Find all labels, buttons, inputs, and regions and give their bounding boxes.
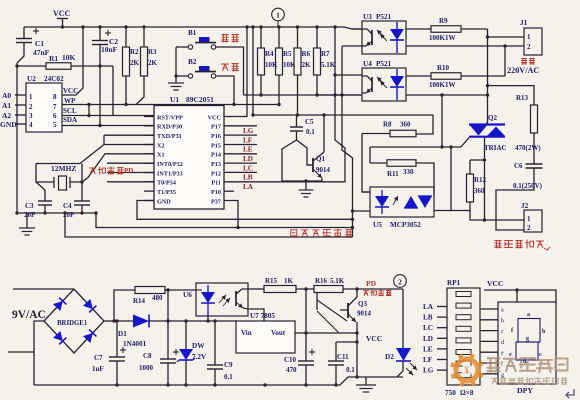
- svg-text:P14: P14: [211, 152, 221, 159]
- wire gate column: [451, 147, 485, 220]
- svg-text:0.1: 0.1: [346, 366, 355, 374]
- wire U3 input top: [352, 28, 362, 30]
- svg-text:C9: C9: [224, 361, 233, 369]
- wire LE into RP1: [437, 348, 447, 350]
- wire LD into RP1: [437, 337, 447, 339]
- svg-text:a: a: [527, 311, 530, 318]
- svg-text:DPY: DPY: [517, 386, 533, 395]
- U1 pin T0/P34 stub: [144, 181, 154, 183]
- resistor R6: [297, 27, 299, 48]
- wire bridge minus to ground rail: [34, 321, 44, 385]
- wire LF into RP1: [437, 359, 447, 361]
- svg-text:C8: C8: [143, 352, 152, 360]
- wire B1 right to R4 node: [216, 47, 244, 95]
- resistor R11: [370, 162, 387, 164]
- svg-text:1K: 1K: [284, 277, 294, 285]
- wire U6 emitter down: [248, 309, 264, 321]
- svg-text:5: 5: [53, 121, 57, 129]
- U1 pin TXD/P31 stub: [144, 134, 154, 136]
- wire U1 P15 net LE: [224, 144, 257, 146]
- capacitor C9: [214, 321, 216, 365]
- svg-text:VCC: VCC: [487, 279, 503, 288]
- label 220V input: [522, 59, 527, 64]
- svg-text:2K: 2K: [148, 59, 158, 67]
- svg-text:P521: P521: [376, 60, 392, 68]
- svg-text:R12: R12: [474, 176, 487, 184]
- U1 pin INT0/P32 stub: [144, 162, 154, 164]
- svg-text:LC: LC: [243, 164, 253, 172]
- wire diag b: [317, 311, 339, 333]
- svg-text:1: 1: [527, 215, 531, 223]
- bridge diode top-left: [53, 301, 63, 311]
- svg-text:1000: 1000: [139, 364, 154, 372]
- svg-text:C7: C7: [94, 354, 103, 362]
- wire U5 left bottom pin: [353, 210, 371, 212]
- svg-text:R11: R11: [387, 170, 399, 178]
- svg-text:5.1K: 5.1K: [330, 277, 345, 285]
- wire crystal left node: [36, 164, 54, 183]
- label PD power-down mid: [89, 168, 95, 174]
- regulator U7 7805: [236, 321, 295, 353]
- DPY pin g: [480, 373, 498, 375]
- wire R4 bottom / key scan: [260, 75, 262, 95]
- wire X1 to U1: [82, 154, 154, 182]
- wire R6 bottom to zero-cross line: [297, 75, 299, 115]
- wire gate feed line: [369, 147, 371, 163]
- U4 phototransistor: [371, 77, 373, 92]
- svg-text:R6: R6: [302, 50, 311, 58]
- svg-text:LG: LG: [243, 127, 254, 135]
- capacitor C8: [167, 321, 169, 359]
- svg-text:b: b: [542, 328, 546, 335]
- wire MT2 to R13: [488, 86, 535, 105]
- wire T0 line: [107, 181, 154, 183]
- bridge rectifier BRIDGE1: [44, 289, 104, 353]
- svg-text:0.1: 0.1: [306, 128, 315, 136]
- U5 light arrow: [393, 196, 398, 205]
- svg-text:10K: 10K: [62, 53, 76, 62]
- DPY pin e: [480, 351, 498, 353]
- svg-text:R14: R14: [133, 297, 146, 305]
- IC U2 24C02 body: [26, 83, 62, 132]
- ground symbol buttons: [175, 47, 177, 83]
- svg-text:3: 3: [29, 112, 33, 120]
- U4 LED: [396, 69, 398, 76]
- DPY pin a: [480, 308, 498, 310]
- svg-text:R8: R8: [383, 121, 392, 129]
- node 1 marker: [272, 8, 285, 21]
- svg-text:Ω×8: Ω×8: [460, 389, 474, 397]
- wire C5 fork right to Q1 base: [297, 140, 312, 165]
- svg-text:J1: J1: [520, 19, 528, 27]
- wire loop T-GND to U1: [137, 201, 353, 220]
- svg-text:MCP3052: MCP3052: [390, 221, 421, 229]
- svg-text:470(2W): 470(2W): [515, 144, 541, 152]
- bridge diode bottom-right: [83, 333, 93, 343]
- wire LG into RP1: [437, 369, 447, 371]
- wire diag a: [317, 300, 347, 321]
- svg-text:VCC: VCC: [366, 334, 382, 343]
- wire B1 left to ground column: [176, 46, 188, 48]
- svg-text:C6: C6: [514, 162, 523, 170]
- wire U1 P13 net LC: [224, 162, 257, 164]
- wire LB into RP1: [437, 316, 447, 318]
- svg-text:4: 4: [29, 121, 33, 129]
- U1 pin GND stub: [144, 200, 154, 202]
- svg-text:PD: PD: [124, 167, 133, 175]
- wire R7 bottom: [316, 75, 318, 95]
- wire WP key net over U1: [62, 104, 234, 106]
- resistor R10: [406, 75, 431, 77]
- label jia su: [222, 35, 228, 42]
- wire PD net: [343, 288, 403, 290]
- wire R5 bottom: [278, 75, 280, 105]
- U6 phototransistor: [235, 291, 237, 306]
- wire crystal top loop: [36, 163, 80, 165]
- wire B2 right to R5 node: [216, 76, 234, 105]
- resistor R7: [316, 27, 318, 48]
- svg-text:7: 7: [53, 103, 57, 111]
- svg-text:P13: P13: [211, 161, 221, 168]
- wire U3 input bottom column: [342, 46, 353, 237]
- wire Q2 MT1 to J2: [485, 137, 525, 220]
- DPY pin f: [480, 362, 498, 364]
- node 2 marker: [394, 275, 407, 288]
- wire U4 output drop column: [441, 95, 443, 147]
- svg-text:480: 480: [152, 294, 163, 302]
- svg-text:C1: C1: [35, 39, 44, 48]
- svg-text:LA: LA: [423, 303, 434, 311]
- svg-text:RXD/P30: RXD/P30: [157, 124, 182, 131]
- connector J2: [524, 210, 542, 232]
- U2 pin 4 stub GND: [15, 123, 26, 125]
- U3 light arrows: [377, 30, 384, 37]
- bridge diode top-right: [83, 299, 93, 309]
- resistor R4: [260, 27, 262, 48]
- diode D1 1N4001: [114, 320, 133, 322]
- wire U1 VCC pin to rail: [224, 27, 247, 117]
- optocoupler U6 body: [196, 283, 248, 316]
- wire U1 P14 net LD: [224, 153, 257, 155]
- svg-text:C10: C10: [284, 356, 297, 364]
- wire C1 to ground column: [16, 63, 18, 213]
- svg-text:2K: 2K: [130, 59, 140, 67]
- U6 LED: [196, 289, 202, 291]
- svg-text:c: c: [539, 351, 542, 358]
- capacitor C1: [23, 27, 25, 39]
- wire U4 input top: [334, 27, 336, 95]
- U2 pin 2 stub A1: [15, 104, 26, 106]
- svg-text:0.1(250V): 0.1(250V): [513, 182, 543, 190]
- wire zero-cross net y115: [253, 114, 433, 116]
- resistor R1: [17, 65, 46, 67]
- transistor Q3 9014: [347, 303, 349, 318]
- svg-text:P16: P16: [211, 133, 221, 140]
- wire R10 column: [504, 46, 506, 76]
- svg-text:24C02: 24C02: [44, 75, 64, 83]
- resistor R8: [362, 133, 390, 135]
- svg-text:A1: A1: [2, 101, 11, 110]
- svg-text:LD: LD: [243, 155, 253, 163]
- resistor R2: [125, 27, 127, 47]
- resistor R15: [264, 286, 296, 293]
- capacitor C2: [99, 27, 101, 41]
- optocoupler U4 P521 body: [362, 68, 406, 101]
- wire U3 output J1 pin2 net: [406, 45, 524, 47]
- resistor R13: [531, 105, 538, 133]
- resistor network RP1: [447, 288, 480, 385]
- svg-text:9014: 9014: [316, 166, 331, 174]
- wire SDA RXD net: [62, 125, 154, 127]
- wire INT1 line: [107, 172, 154, 174]
- U1 pin T1/P35 stub: [144, 190, 154, 192]
- wire R1 to RST line: [112, 66, 114, 116]
- wire crystal ground bus: [17, 212, 96, 214]
- wire LA into RP1: [437, 306, 447, 308]
- wire U4 input bottom: [317, 94, 362, 96]
- svg-text:BRIDGE1: BRIDGE1: [57, 320, 88, 327]
- arrow mark: [544, 247, 550, 250]
- capacitor C3: [36, 182, 45, 201]
- watermark subtitle text: [491, 378, 567, 385]
- svg-text:C11: C11: [337, 353, 349, 361]
- label power-fail signal: [363, 291, 368, 296]
- wire SCL RST net: [62, 115, 154, 117]
- svg-text:1: 1: [527, 33, 531, 41]
- wire U4 output to MT2 column: [406, 94, 488, 96]
- svg-text:T1/P35: T1/P35: [157, 189, 176, 196]
- svg-text:INT1/P33: INT1/P33: [157, 170, 183, 177]
- bridge diode bottom-left: [53, 331, 63, 341]
- svg-text:C4: C4: [63, 202, 72, 210]
- svg-text:7.2V: 7.2V: [192, 353, 207, 361]
- U3 phototransistor: [371, 30, 373, 45]
- capacitor C6: [526, 163, 543, 165]
- svg-text:8: 8: [53, 93, 57, 101]
- wire VCC top rail: [24, 27, 362, 29]
- svg-text:LG: LG: [423, 367, 434, 375]
- svg-text:c: c: [501, 329, 504, 335]
- IC U1 89C2051 body: [154, 106, 224, 210]
- svg-text:LE: LE: [243, 146, 253, 154]
- wire VCC column: [356, 333, 358, 377]
- svg-text:R9: R9: [439, 17, 448, 25]
- svg-text:GND: GND: [157, 198, 171, 205]
- svg-text:LF: LF: [423, 356, 433, 364]
- wire AC bottom input: [8, 351, 34, 353]
- svg-text:LE: LE: [423, 345, 433, 353]
- svg-text:A2: A2: [2, 111, 11, 120]
- svg-text:RP1: RP1: [447, 279, 461, 287]
- svg-text:5.1K: 5.1K: [321, 61, 336, 69]
- svg-text:100K1W: 100K1W: [429, 81, 455, 89]
- svg-text:20P: 20P: [24, 211, 36, 219]
- svg-text:LD: LD: [423, 335, 433, 343]
- wire rail to y115 column: [252, 27, 254, 115]
- svg-text:P11: P11: [211, 180, 221, 187]
- wire crystal right node: [70, 164, 82, 183]
- svg-text:12MHZ: 12MHZ: [51, 164, 76, 173]
- wire Q1 collector to y115: [323, 115, 325, 152]
- wire U1 P10 stub: [224, 190, 234, 192]
- svg-text:e: e: [509, 351, 512, 358]
- wire Vout bus: [295, 332, 357, 334]
- wire bridge plus node: [104, 320, 114, 322]
- wire R15 to R16: [296, 288, 314, 290]
- wire y115 drop to R8 right: [416, 115, 433, 134]
- corner arrow mark: [566, 389, 574, 395]
- svg-text:U3: U3: [363, 13, 372, 21]
- wire loop mid: [96, 213, 353, 228]
- svg-text:C5: C5: [305, 118, 314, 126]
- svg-text:P37: P37: [211, 198, 221, 205]
- wire ground rail: [34, 377, 403, 385]
- wire LC into RP1: [437, 327, 447, 329]
- wire U1 P17 net LG: [224, 125, 257, 127]
- wire U3 input bottom: [342, 45, 362, 47]
- svg-text:470: 470: [286, 366, 297, 374]
- svg-text:P10: P10: [211, 189, 221, 196]
- svg-text:U5: U5: [373, 221, 382, 229]
- DPY pin d: [480, 340, 498, 342]
- svg-text:R3: R3: [148, 48, 157, 56]
- svg-text:X2: X2: [157, 142, 165, 149]
- svg-text:b: b: [501, 318, 504, 324]
- wire R14 right down: [167, 290, 169, 321]
- svg-text:U7 7805: U7 7805: [250, 312, 275, 320]
- svg-text:VCC: VCC: [63, 87, 78, 95]
- wire key net y95 to optos: [244, 94, 362, 96]
- svg-text:1uF: 1uF: [92, 365, 104, 373]
- ground symbol Q1: [305, 181, 307, 190]
- svg-text:47nF: 47nF: [33, 48, 50, 57]
- wire LA net to U4 column: [257, 95, 345, 182]
- resistor R9: [406, 28, 431, 30]
- connector J1: [524, 28, 542, 55]
- svg-text:SCL: SCL: [63, 107, 77, 115]
- svg-text:VCC: VCC: [208, 114, 221, 121]
- wire U1 P37 to loop: [224, 201, 238, 228]
- svg-text:R7: R7: [321, 50, 330, 58]
- wire Q1 emitter to ground line: [321, 178, 323, 181]
- svg-text:WP: WP: [64, 97, 76, 105]
- U3 LED: [396, 22, 398, 29]
- svg-text:U1: U1: [170, 95, 179, 104]
- wire J1 pin1: [488, 36, 525, 38]
- ground symbol main: [365, 377, 367, 385]
- wire DC bus to U7: [168, 320, 236, 322]
- label output to motor: [495, 241, 501, 248]
- svg-text:2: 2: [527, 224, 531, 232]
- svg-text:LB: LB: [423, 314, 433, 322]
- svg-text:2: 2: [398, 277, 402, 286]
- svg-text:g: g: [501, 372, 504, 378]
- wire zero-cross detect loop: [65, 213, 353, 237]
- wire key net y105 dot: [277, 103, 280, 106]
- svg-text:Q1: Q1: [316, 155, 325, 163]
- svg-text:e: e: [501, 351, 504, 357]
- wire X2 to U1: [80, 145, 154, 164]
- display DPY body: [498, 302, 556, 384]
- svg-text:T0/P34: T0/P34: [157, 180, 176, 187]
- svg-text:330: 330: [403, 168, 414, 176]
- wire R15R16 node down to 5V: [305, 289, 307, 333]
- wire Q1 ground line: [282, 180, 322, 182]
- svg-text:Vout: Vout: [271, 329, 286, 337]
- U1 pin INT1/P33 stub: [144, 172, 154, 174]
- wire U6 LED feed: [168, 289, 196, 291]
- wire WP to R5 segment: [234, 104, 279, 106]
- svg-text:TXD/P31: TXD/P31: [157, 133, 182, 140]
- resistor R3: [143, 27, 145, 47]
- svg-text:R5: R5: [283, 50, 292, 58]
- svg-text:INT0/P32: INT0/P32: [157, 161, 183, 168]
- svg-text:U2: U2: [27, 75, 36, 83]
- wire R8 left column to U5 top: [362, 134, 370, 193]
- DPY pin b: [480, 319, 498, 321]
- svg-text:R13: R13: [516, 94, 529, 102]
- label jian su: [221, 64, 228, 71]
- wire U5 left top pin: [362, 191, 370, 193]
- svg-text:9V/AC: 9V/AC: [12, 309, 46, 321]
- svg-text:360: 360: [400, 121, 411, 129]
- wire INT0 line: [107, 162, 154, 164]
- svg-text:X1: X1: [157, 152, 165, 159]
- svg-text:2K: 2K: [302, 61, 312, 69]
- wire AC top input: [13, 288, 74, 290]
- wire TXD net: [104, 134, 154, 136]
- U1 pin X2 stub: [144, 144, 154, 146]
- U2 pin 1 stub A0: [15, 94, 26, 96]
- zener DW 7.2V: [185, 321, 187, 349]
- wire U1 P16 net LF: [224, 134, 257, 136]
- U5 triac: [404, 196, 418, 208]
- svg-text:0.1: 0.1: [224, 373, 233, 381]
- LED D2: [402, 289, 404, 348]
- svg-text:f: f: [501, 361, 503, 368]
- U1 pin RST/VPP stub: [144, 116, 154, 118]
- svg-text:89C2051: 89C2051: [186, 95, 214, 104]
- svg-text:Q2: Q2: [488, 114, 497, 122]
- optocoupler U3 P521 body: [362, 21, 406, 54]
- label guoling jiance xinhao: [291, 230, 297, 236]
- svg-text:R10: R10: [437, 64, 450, 72]
- resistor R12: [467, 174, 474, 202]
- svg-text:A0: A0: [2, 91, 11, 100]
- resistor R5: [278, 27, 280, 48]
- svg-text:R4: R4: [265, 50, 274, 58]
- resistor R16: [314, 286, 343, 293]
- svg-text:360: 360: [474, 187, 485, 195]
- svg-text:2: 2: [29, 103, 33, 111]
- wire R14 branch: [114, 290, 135, 321]
- wire U6 collector to R15: [248, 288, 264, 290]
- svg-text:R2: R2: [130, 48, 139, 56]
- svg-text:J2: J2: [521, 202, 529, 210]
- svg-text:1: 1: [29, 93, 33, 101]
- svg-text:D1: D1: [118, 330, 127, 338]
- transistor Q1 9014: [312, 158, 314, 172]
- svg-text:9014: 9014: [357, 310, 372, 318]
- capacitor C7: [116, 321, 118, 357]
- svg-text:2: 2: [527, 43, 531, 51]
- svg-text:U6: U6: [183, 291, 192, 299]
- svg-text:R15: R15: [265, 277, 278, 285]
- U1 pin X1 stub: [144, 153, 154, 155]
- U1 pin RXD/P30 stub: [144, 125, 154, 127]
- svg-text:PD: PD: [366, 279, 377, 288]
- svg-text:C3: C3: [25, 202, 34, 210]
